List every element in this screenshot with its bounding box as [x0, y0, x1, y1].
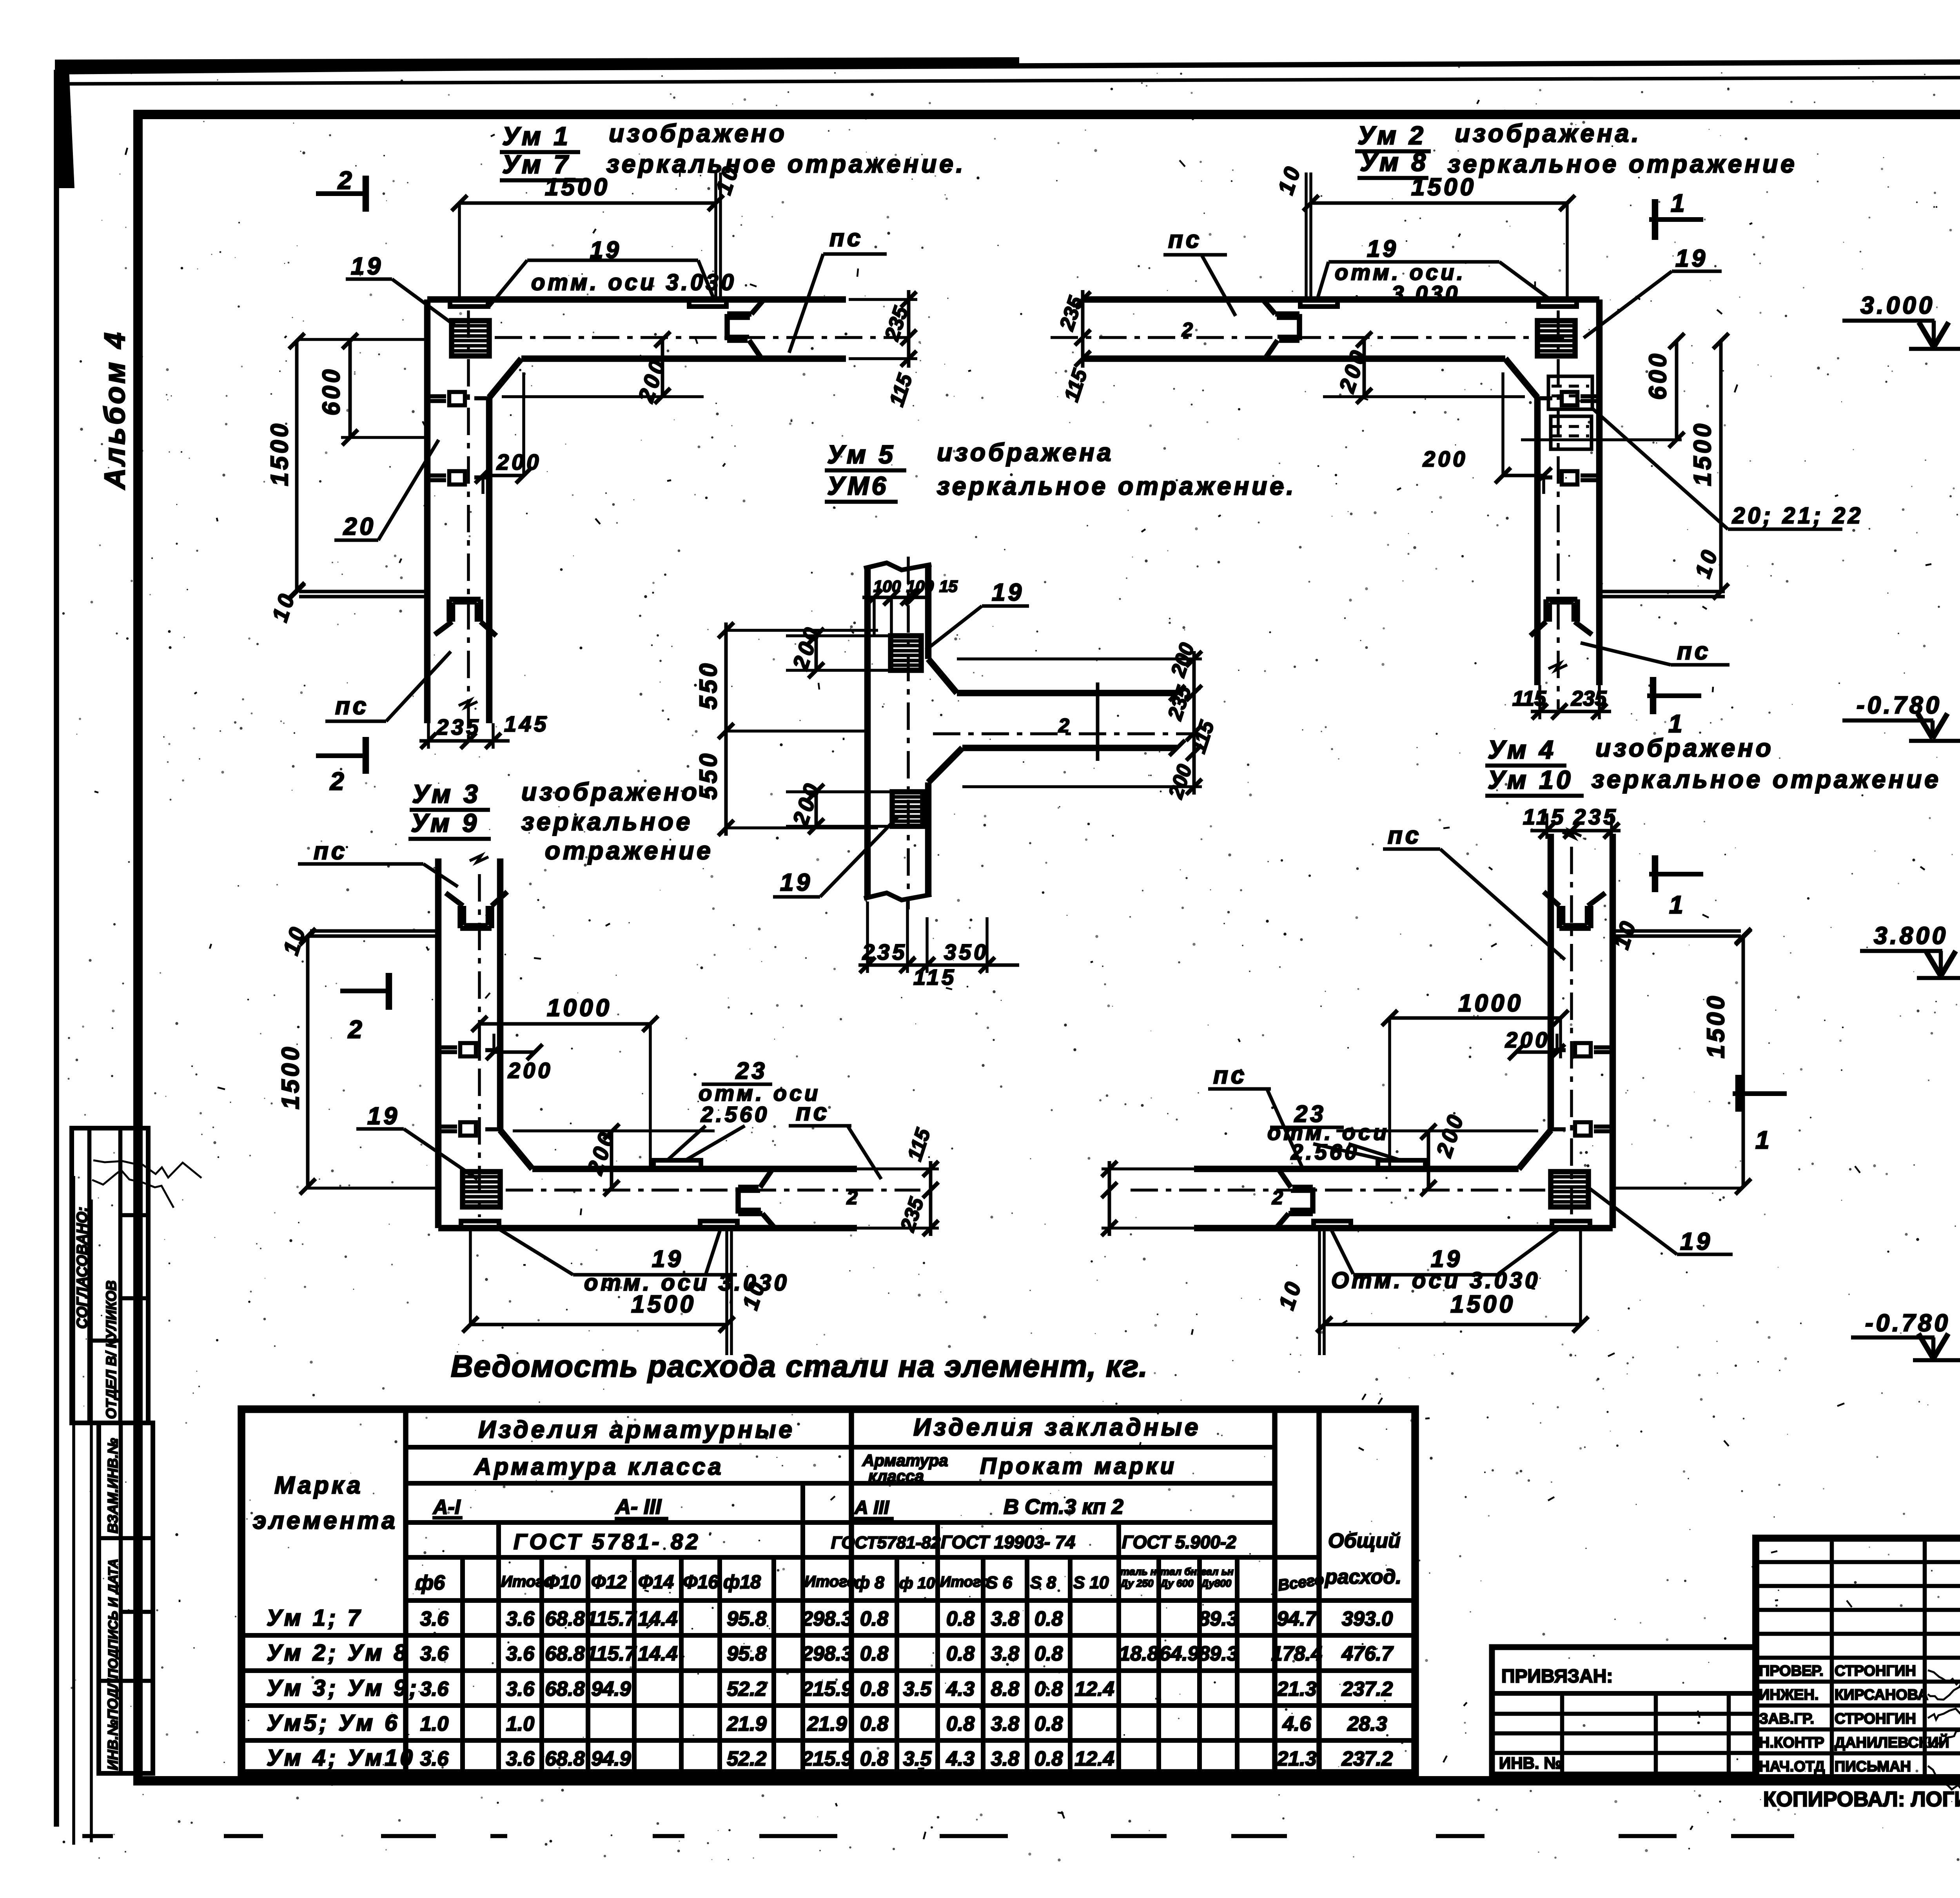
svg-text:215.9: 215.9 [801, 1747, 853, 1770]
svg-text:350: 350 [944, 940, 989, 964]
svg-text:0.8: 0.8 [1034, 1608, 1063, 1630]
svg-text:зеркальное: зеркальное [521, 807, 693, 836]
svg-text:2.560: 2.560 [701, 1102, 769, 1127]
svg-text:94.9: 94.9 [591, 1678, 631, 1700]
svg-text:зеркальное отражение.: зеркальное отражение. [937, 472, 1296, 500]
svg-text:1.0: 1.0 [420, 1713, 448, 1735]
svg-text:68.8: 68.8 [545, 1678, 584, 1700]
svg-text:0.8: 0.8 [946, 1608, 975, 1630]
svg-text:1: 1 [1668, 709, 1685, 738]
svg-text:Итого: Итого [940, 1574, 989, 1590]
svg-text:Арматура класса: Арматура класса [474, 1453, 724, 1480]
svg-text:235: 235 [1571, 687, 1607, 710]
svg-text:2: 2 [330, 767, 347, 795]
svg-text:ф 10: ф 10 [899, 1575, 935, 1592]
svg-text:Альбом 4: Альбом 4 [98, 330, 131, 490]
svg-text:3.8: 3.8 [991, 1713, 1019, 1735]
svg-text:ВЗАМ.ИНВ.№: ВЗАМ.ИНВ.№ [105, 1438, 121, 1533]
svg-text:94.7: 94.7 [1277, 1608, 1317, 1630]
svg-text:Ду 250: Ду 250 [1120, 1577, 1154, 1589]
svg-text:145: 145 [504, 711, 549, 736]
svg-text:Ум 8: Ум 8 [1360, 147, 1428, 176]
svg-text:89.3: 89.3 [1198, 1608, 1238, 1630]
svg-text:3.8: 3.8 [991, 1642, 1019, 1665]
svg-text:пс: пс [1388, 822, 1421, 849]
svg-text:отражение: отражение [545, 836, 713, 865]
svg-text:200: 200 [496, 450, 541, 474]
svg-text:235: 235 [436, 715, 481, 739]
svg-text:Ум 3; Ум 9;: Ум 3; Ум 9; [267, 1675, 419, 1701]
svg-text:20: 20 [343, 513, 376, 540]
svg-text:зеркальное отражение.: зеркальное отражение. [606, 150, 966, 178]
svg-text:2: 2 [338, 166, 355, 194]
svg-text:НАЧ.ОТД: НАЧ.ОТД [1759, 1758, 1825, 1775]
svg-text:Ф14: Ф14 [638, 1572, 674, 1593]
svg-text:0.8: 0.8 [946, 1642, 975, 1665]
svg-text:19: 19 [992, 579, 1024, 606]
svg-text:115: 115 [1512, 687, 1546, 710]
svg-text:0.8: 0.8 [860, 1642, 888, 1665]
svg-text:3.5: 3.5 [903, 1678, 932, 1700]
svg-text:3.6: 3.6 [420, 1747, 449, 1770]
svg-text:1500: 1500 [545, 174, 610, 201]
svg-text:Ф12: Ф12 [591, 1572, 627, 1593]
svg-text:Ум5; Ум 6: Ум5; Ум 6 [267, 1710, 400, 1736]
svg-text:4.3: 4.3 [946, 1678, 975, 1700]
svg-text:ГОСТ 5.900-2: ГОСТ 5.900-2 [1122, 1532, 1236, 1552]
svg-text:S 10: S 10 [1073, 1573, 1109, 1592]
svg-text:28.3: 28.3 [1347, 1713, 1387, 1735]
svg-text:1500: 1500 [277, 1044, 304, 1109]
svg-text:3.800: 3.800 [1874, 922, 1948, 949]
svg-text:68.8: 68.8 [545, 1608, 584, 1630]
svg-text:Отм. оси 3.030: Отм. оси 3.030 [1331, 1268, 1540, 1293]
svg-text:476.7: 476.7 [1341, 1642, 1394, 1665]
svg-text:ПРИВЯЗАН:: ПРИВЯЗАН: [1501, 1666, 1613, 1687]
svg-text:1500: 1500 [1450, 1291, 1515, 1318]
svg-text:ИНВ.№ПОДЛ.: ИНВ.№ПОДЛ. [105, 1675, 121, 1770]
svg-text:0.8: 0.8 [860, 1678, 888, 1700]
svg-text:3.6: 3.6 [506, 1642, 535, 1665]
svg-text:1500: 1500 [1702, 993, 1730, 1058]
svg-text:2: 2 [1181, 319, 1193, 341]
svg-text:Ум 4: Ум 4 [1488, 735, 1556, 764]
svg-text:115: 115 [1523, 804, 1566, 829]
svg-text:19: 19 [1680, 1228, 1713, 1255]
svg-text:21.3: 21.3 [1276, 1678, 1316, 1700]
svg-text:Ум 9: Ум 9 [411, 808, 479, 837]
svg-text:ф6: ф6 [416, 1571, 445, 1594]
svg-text:23: 23 [735, 1058, 768, 1084]
svg-text:2: 2 [1272, 1187, 1283, 1208]
svg-text:21.3: 21.3 [1276, 1747, 1316, 1770]
svg-text:0.8: 0.8 [946, 1713, 975, 1735]
svg-text:3.6: 3.6 [420, 1678, 449, 1700]
svg-text:19: 19 [652, 1246, 684, 1272]
svg-text:3.6: 3.6 [420, 1608, 449, 1630]
svg-text:ДАНИЛЕВСКИЙ: ДАНИЛЕВСКИЙ [1835, 1733, 1949, 1751]
svg-text:68.8: 68.8 [545, 1642, 584, 1665]
svg-text:ИНВ. №: ИНВ. № [1499, 1754, 1562, 1772]
svg-text:0.8: 0.8 [1034, 1747, 1063, 1770]
svg-text:пс: пс [829, 225, 863, 252]
svg-text:Н.КОНТР: Н.КОНТР [1759, 1735, 1824, 1751]
svg-text:64.9: 64.9 [1159, 1642, 1199, 1665]
svg-text:3.000: 3.000 [1860, 292, 1935, 319]
svg-text:УМ6: УМ6 [827, 471, 889, 500]
svg-text:600: 600 [1644, 351, 1671, 400]
svg-text:3.6: 3.6 [506, 1678, 535, 1700]
svg-text:3.6: 3.6 [506, 1608, 535, 1630]
svg-text:178.4: 178.4 [1271, 1642, 1322, 1665]
svg-text:1000: 1000 [547, 994, 612, 1022]
svg-text:ПИСЬМАН: ПИСЬМАН [1835, 1758, 1911, 1775]
svg-text:18.8: 18.8 [1119, 1642, 1158, 1665]
svg-text:пс: пс [335, 693, 369, 720]
svg-text:14.4: 14.4 [638, 1642, 677, 1665]
svg-text:15: 15 [939, 577, 958, 595]
svg-text:68.8: 68.8 [545, 1747, 584, 1770]
svg-text:КОПИРОВАЛ: ЛОГИНОВА: КОПИРОВАЛ: ЛОГИНОВА [1763, 1787, 1960, 1811]
svg-text:3.5: 3.5 [903, 1747, 932, 1770]
svg-text:пс: пс [314, 838, 347, 865]
svg-text:94.9: 94.9 [591, 1747, 631, 1770]
svg-text:Ф10: Ф10 [545, 1572, 581, 1593]
svg-text:237.2: 237.2 [1341, 1678, 1393, 1700]
svg-text:ф 8: ф 8 [855, 1573, 884, 1592]
svg-text:1: 1 [1669, 891, 1686, 919]
svg-text:-0.780: -0.780 [1865, 1310, 1951, 1337]
svg-text:Изделия закладные: Изделия закладные [913, 1414, 1201, 1441]
svg-text:200: 200 [508, 1058, 553, 1083]
svg-text:298.3: 298.3 [801, 1642, 853, 1665]
svg-text:изображено: изображено [521, 778, 700, 806]
svg-text:52.2: 52.2 [727, 1678, 766, 1700]
svg-text:4.6: 4.6 [1282, 1713, 1311, 1735]
svg-text:класса: класса [868, 1467, 924, 1485]
svg-text:таль н:: таль н: [1120, 1566, 1160, 1577]
svg-text:21.9: 21.9 [726, 1713, 766, 1735]
svg-text:115: 115 [913, 965, 956, 989]
svg-text:СТРОНГИН: СТРОНГИН [1835, 1663, 1916, 1679]
svg-text:А III: А III [854, 1497, 890, 1518]
svg-text:Ум 2: Ум 2 [1357, 121, 1426, 150]
svg-text:19: 19 [1367, 236, 1399, 262]
svg-text:21.9: 21.9 [807, 1713, 847, 1735]
svg-text:Ум 5: Ум 5 [827, 440, 896, 469]
svg-text:Ведомость расхода стали на эле: Ведомость расхода стали на элемент, кг. [451, 1349, 1148, 1383]
svg-text:20; 21; 22: 20; 21; 22 [1732, 503, 1863, 528]
svg-text:Ум 2; Ум 8: Ум 2; Ум 8 [267, 1640, 409, 1666]
svg-text:Ф16: Ф16 [683, 1572, 719, 1593]
svg-text:19: 19 [780, 869, 813, 896]
svg-text:12.4: 12.4 [1074, 1678, 1114, 1700]
svg-text:Ум 1; 7: Ум 1; 7 [267, 1605, 363, 1631]
svg-text:14.4: 14.4 [638, 1608, 677, 1630]
svg-text:3.8: 3.8 [991, 1747, 1019, 1770]
svg-text:пс: пс [796, 1099, 829, 1126]
svg-text:изображена: изображена [937, 438, 1114, 466]
svg-text:пс: пс [1168, 226, 1202, 253]
svg-text:зеркальное отражение: зеркальное отражение [1592, 765, 1941, 793]
svg-text:200: 200 [1505, 1027, 1550, 1052]
svg-text:-0.780: -0.780 [1857, 692, 1942, 719]
svg-text:ГОСТ 19903- 74: ГОСТ 19903- 74 [941, 1532, 1075, 1552]
svg-text:95.8: 95.8 [727, 1608, 766, 1630]
svg-text:115.7: 115.7 [586, 1642, 637, 1665]
svg-text:0.8: 0.8 [1034, 1713, 1063, 1735]
svg-text:1: 1 [1755, 1126, 1772, 1154]
svg-text:8.8: 8.8 [991, 1678, 1019, 1700]
svg-text:19: 19 [1675, 245, 1708, 272]
svg-text:отм. оси 3.030: отм. оси 3.030 [531, 270, 737, 295]
svg-text:0.8: 0.8 [1034, 1642, 1063, 1665]
svg-text:1000: 1000 [1458, 990, 1523, 1017]
svg-text:Изделия арматурные: Изделия арматурные [478, 1416, 795, 1443]
svg-text:19: 19 [367, 1103, 400, 1130]
svg-text:393.0: 393.0 [1342, 1608, 1393, 1630]
svg-text:2: 2 [348, 1015, 365, 1043]
svg-text:КИРСАНОВА: КИРСАНОВА [1835, 1687, 1928, 1703]
svg-text:95.8: 95.8 [727, 1642, 766, 1665]
svg-text:19: 19 [351, 253, 383, 280]
svg-text:S 8: S 8 [1030, 1573, 1056, 1592]
svg-text:ГОСТ 5781- 82: ГОСТ 5781- 82 [514, 1529, 701, 1554]
svg-text:215.9: 215.9 [801, 1678, 853, 1700]
svg-text:тал бн:: тал бн: [1160, 1566, 1200, 1577]
svg-text:Ум 1: Ум 1 [502, 122, 571, 151]
svg-text:298.3: 298.3 [801, 1608, 853, 1630]
svg-text:1500: 1500 [266, 421, 293, 486]
svg-text:1: 1 [1671, 189, 1688, 217]
svg-text:52.2: 52.2 [727, 1747, 766, 1770]
svg-text:пс: пс [1677, 638, 1711, 665]
svg-text:Прокат марки: Прокат марки [980, 1453, 1177, 1479]
svg-text:0.8: 0.8 [860, 1713, 888, 1735]
svg-text:0.8: 0.8 [860, 1608, 888, 1630]
svg-text:Итого: Итого [804, 1573, 857, 1590]
svg-text:Ум 10: Ум 10 [1488, 765, 1573, 794]
svg-text:19: 19 [590, 237, 622, 263]
svg-text:100: 100 [873, 577, 901, 595]
svg-text:Ду 600: Ду 600 [1160, 1577, 1194, 1589]
svg-text:изображено: изображено [1595, 734, 1774, 762]
svg-text:А-I: А-I [432, 1496, 461, 1519]
svg-text:200: 200 [1423, 446, 1468, 471]
svg-text:Ум 4; Ум10: Ум 4; Ум10 [267, 1745, 416, 1771]
svg-text:100: 100 [906, 577, 934, 595]
svg-text:237.2: 237.2 [1341, 1747, 1393, 1770]
svg-text:3.6: 3.6 [506, 1747, 535, 1770]
svg-text:ПРОВЕР.: ПРОВЕР. [1759, 1663, 1824, 1679]
svg-text:Марка: Марка [274, 1472, 363, 1499]
svg-text:3.030: 3.030 [1392, 281, 1460, 306]
svg-text:600: 600 [318, 367, 345, 416]
svg-text:ГОСТ5781-82: ГОСТ5781-82 [831, 1533, 941, 1552]
svg-text:расход.: расход. [1324, 1566, 1401, 1588]
svg-text:Общий: Общий [1328, 1530, 1401, 1552]
svg-text:ЗАВ.ГР.: ЗАВ.ГР. [1759, 1711, 1814, 1727]
svg-text:изображена.: изображена. [1455, 119, 1641, 147]
svg-text:Ду800: Ду800 [1200, 1577, 1232, 1589]
svg-text:СТРОНГИН: СТРОНГИН [1835, 1711, 1916, 1727]
svg-text:В Ст.3 кп 2: В Ст.3 кп 2 [1004, 1495, 1123, 1519]
svg-text:3.8: 3.8 [991, 1608, 1019, 1630]
svg-text:элемента: элемента [253, 1507, 398, 1534]
svg-text:ИНЖЕН.: ИНЖЕН. [1759, 1687, 1818, 1703]
svg-text:1500: 1500 [1411, 174, 1476, 201]
svg-text:ф18: ф18 [723, 1572, 761, 1593]
svg-text:изображено: изображено [609, 119, 787, 147]
svg-text:S 6: S 6 [986, 1573, 1013, 1592]
svg-text:12.4: 12.4 [1074, 1747, 1114, 1770]
svg-text:4.3: 4.3 [946, 1747, 975, 1770]
svg-text:Ум 3: Ум 3 [412, 779, 481, 808]
svg-text:550: 550 [695, 661, 722, 709]
svg-text:89.3: 89.3 [1198, 1642, 1238, 1665]
svg-text:115.7: 115.7 [586, 1608, 637, 1630]
svg-text:зеркальное отражение: зеркальное отражение [1448, 150, 1797, 178]
svg-text:550: 550 [695, 751, 722, 800]
svg-text:0.8: 0.8 [860, 1747, 888, 1770]
svg-text:ОТДЕЛ В/ КУЛИКОВ: ОТДЕЛ В/ КУЛИКОВ [103, 1281, 119, 1419]
svg-text:1500: 1500 [1689, 421, 1716, 486]
svg-text:гал ьн: гал ьн [1201, 1566, 1234, 1577]
svg-text:пс: пс [1213, 1062, 1247, 1089]
svg-text:А- III: А- III [615, 1495, 662, 1519]
svg-text:ПОДПИСЬ И ДАТА: ПОДПИСЬ И ДАТА [106, 1559, 121, 1678]
svg-text:СОГЛАСОВАНО:: СОГЛАСОВАНО: [74, 1207, 91, 1329]
svg-text:2: 2 [1058, 715, 1069, 737]
svg-text:2: 2 [846, 1187, 858, 1208]
svg-text:1.0: 1.0 [506, 1713, 534, 1735]
